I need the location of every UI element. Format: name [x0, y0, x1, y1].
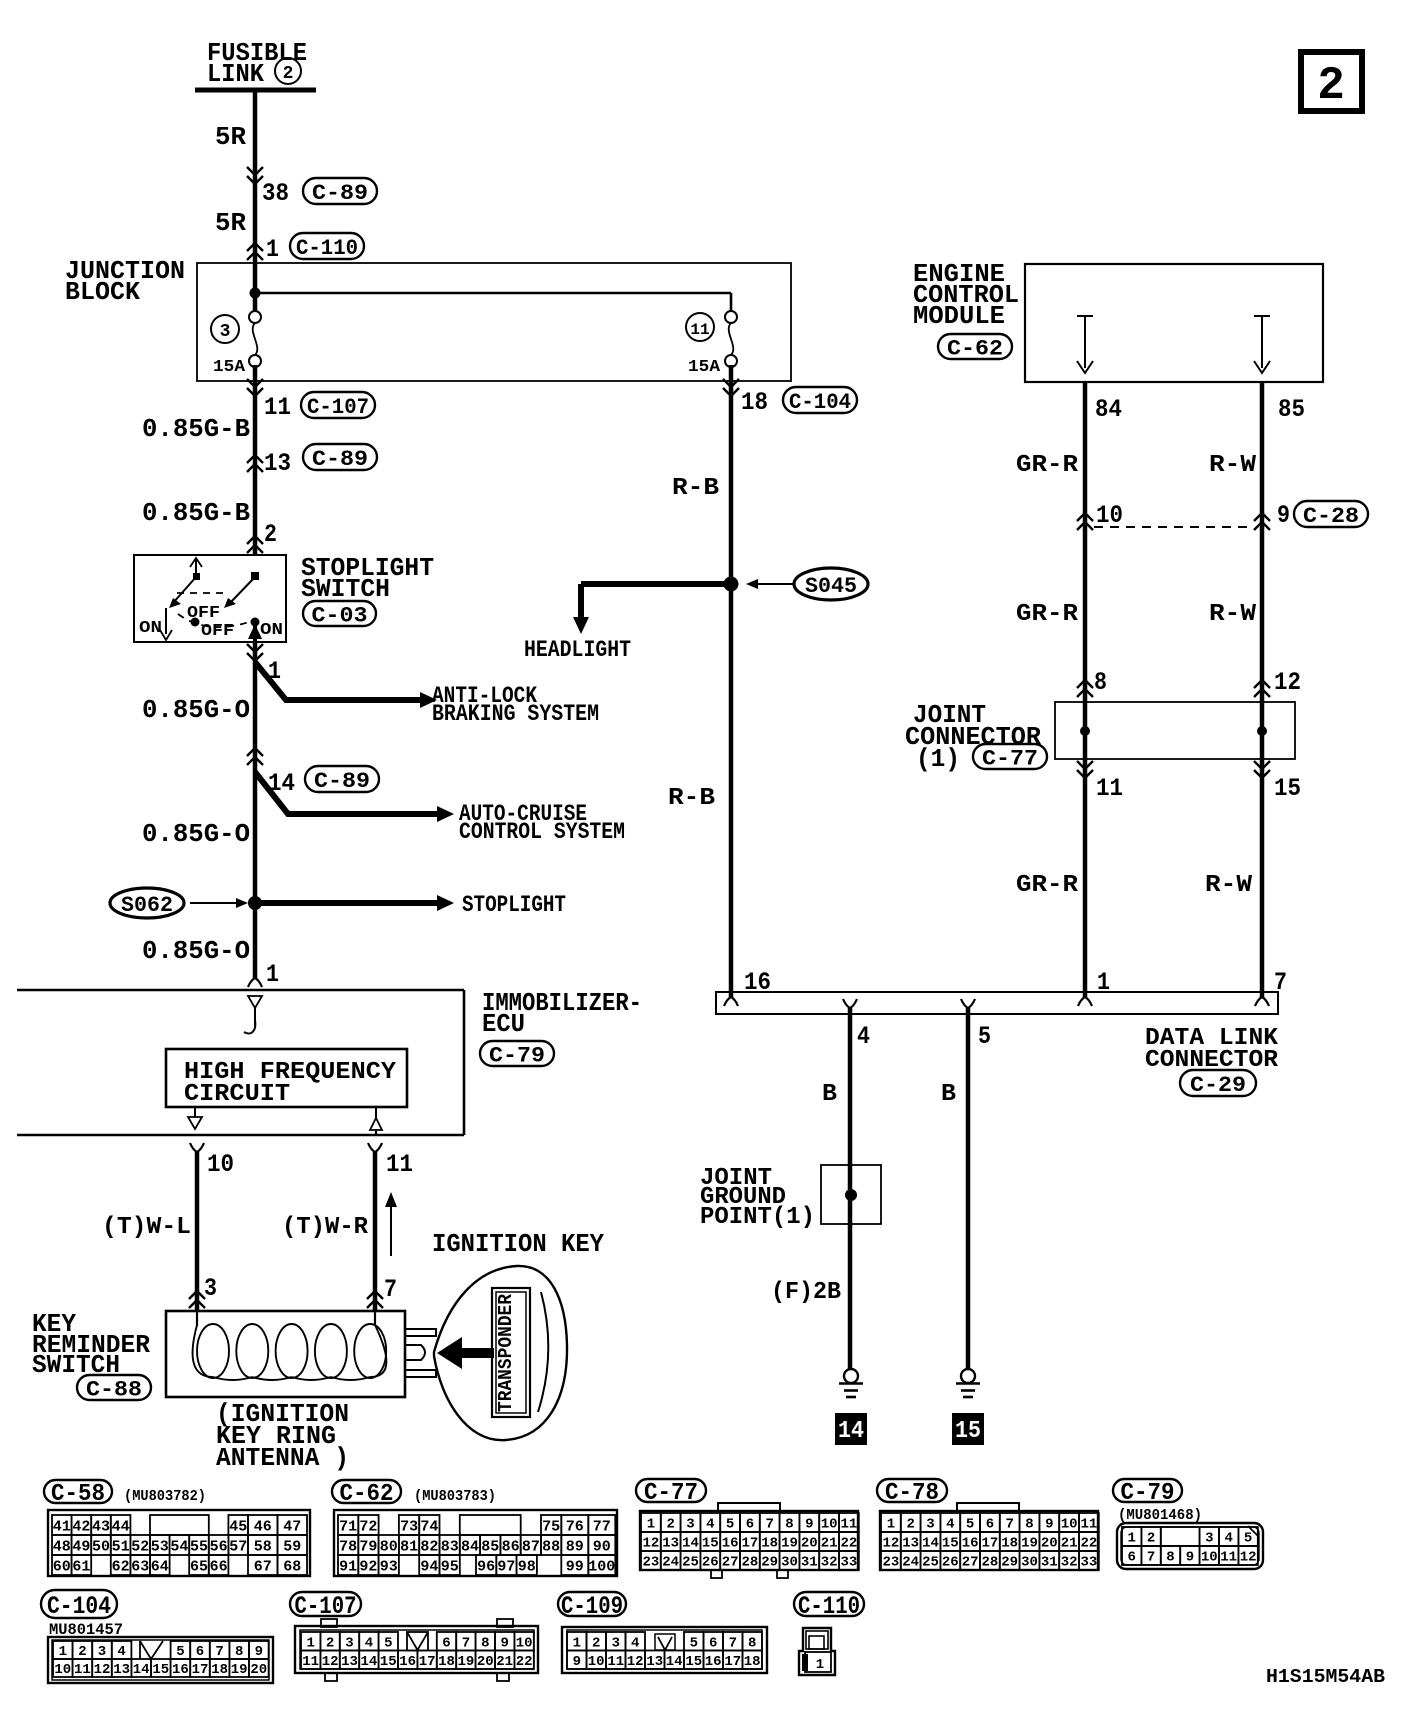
- svg-text:20: 20: [801, 1536, 818, 1552]
- svg-text:B: B: [822, 1081, 837, 1108]
- svg-text:(1): (1): [916, 744, 960, 774]
- svg-text:15: 15: [955, 1418, 981, 1445]
- svg-text:2: 2: [78, 1644, 86, 1660]
- svg-text:47: 47: [283, 1518, 301, 1535]
- svg-text:S062: S062: [121, 893, 173, 918]
- svg-text:26: 26: [702, 1555, 719, 1571]
- svg-text:6: 6: [746, 1517, 754, 1533]
- svg-text:13: 13: [113, 1662, 130, 1678]
- svg-text:6: 6: [986, 1517, 994, 1533]
- svg-text:92: 92: [359, 1558, 377, 1575]
- node S045 junction: [581, 577, 739, 592]
- label pin 1 below switch: [268, 657, 281, 686]
- DLC terminal forks top: [724, 997, 1269, 1006]
- ignition key shaft: [405, 1329, 436, 1377]
- connector label C-79: [480, 1041, 554, 1068]
- connector symbols at joint connector entry: [1077, 680, 1270, 697]
- svg-text:C-88: C-88: [86, 1377, 142, 1402]
- stoplight switch C-03 box: [134, 555, 286, 642]
- connector symbols at key reminder switch: [189, 1291, 383, 1308]
- headlight label: [524, 637, 631, 663]
- svg-text:IGNITION KEY: IGNITION KEY: [432, 1229, 604, 1259]
- svg-text:28: 28: [981, 1555, 998, 1571]
- stoplight switch right pole: [224, 572, 262, 642]
- svg-text:R-B: R-B: [668, 785, 715, 812]
- svg-text:C-89: C-89: [314, 769, 370, 794]
- svg-text:C-58: C-58: [51, 1481, 105, 1508]
- label 5R upper: [215, 122, 246, 152]
- svg-text:18: 18: [438, 1654, 455, 1670]
- connector C-109 label: [558, 1592, 626, 1621]
- label B left: [822, 1081, 837, 1108]
- key reminder switch label: [32, 1309, 150, 1380]
- connector symbol above stoplight switch: [247, 536, 263, 553]
- svg-text:9: 9: [500, 1635, 508, 1651]
- svg-text:22: 22: [516, 1654, 533, 1670]
- svg-text:8: 8: [1094, 668, 1107, 697]
- svg-text:6: 6: [442, 1635, 450, 1651]
- svg-text:18: 18: [744, 1654, 761, 1670]
- label pin 84: [1095, 395, 1122, 424]
- wire W-R pin 11: [368, 1143, 382, 1311]
- svg-text:11: 11: [1096, 774, 1123, 803]
- label pin 14 and C-89: [268, 766, 379, 798]
- svg-text:78: 78: [339, 1538, 357, 1555]
- svg-text:12: 12: [1240, 1550, 1257, 1566]
- page number box 2: [1301, 52, 1362, 112]
- svg-text:7: 7: [729, 1635, 737, 1651]
- svg-text:GR-R: GR-R: [1016, 872, 1079, 899]
- svg-text:CONTROL SYSTEM: CONTROL SYSTEM: [459, 819, 625, 845]
- svg-text:19: 19: [457, 1654, 474, 1670]
- svg-text:8: 8: [235, 1644, 243, 1660]
- label GR-R upper: [1016, 452, 1079, 479]
- svg-text:BLOCK: BLOCK: [65, 277, 140, 307]
- connector C-110 label: [794, 1592, 864, 1621]
- svg-text:51: 51: [112, 1538, 130, 1555]
- svg-text:7: 7: [462, 1635, 470, 1651]
- antenna input symbol: [244, 996, 262, 1034]
- svg-text:9: 9: [573, 1654, 581, 1670]
- immobilizer ECU label: [482, 988, 642, 1039]
- label pin 7: [384, 1275, 397, 1304]
- svg-text:STOPLIGHT: STOPLIGHT: [462, 892, 566, 918]
- svg-text:91: 91: [339, 1558, 357, 1575]
- svg-text:57: 57: [229, 1538, 247, 1555]
- svg-text:2: 2: [906, 1517, 914, 1533]
- wire 0.85G-B: [253, 365, 258, 556]
- svg-text:12: 12: [642, 1536, 659, 1552]
- svg-text:26: 26: [942, 1555, 959, 1571]
- svg-text:14: 14: [838, 1418, 864, 1445]
- svg-text:31: 31: [1041, 1555, 1058, 1571]
- svg-text:100: 100: [588, 1558, 615, 1575]
- joint ground point (1) box: [821, 1165, 881, 1224]
- ECM output arrow right: [1254, 316, 1270, 373]
- svg-text:R-W: R-W: [1205, 872, 1253, 899]
- svg-text:0.85G-O: 0.85G-O: [142, 819, 250, 849]
- svg-text:10: 10: [54, 1662, 71, 1678]
- label pin 1 at immobilizer ECU: [266, 960, 279, 989]
- label pin 3: [204, 1274, 217, 1303]
- svg-text:42: 42: [72, 1518, 90, 1535]
- svg-text:5: 5: [966, 1517, 974, 1533]
- wire W-L pin 10: [190, 1143, 204, 1311]
- svg-text:21: 21: [1061, 1536, 1078, 1552]
- connector C-104 label: [41, 1590, 117, 1621]
- svg-text:17: 17: [741, 1536, 758, 1552]
- svg-text:12: 12: [322, 1654, 339, 1670]
- auto-cruise control system label: [459, 801, 625, 845]
- label 0.85G-B lower: [142, 498, 250, 528]
- svg-text:85: 85: [1278, 395, 1305, 424]
- svg-text:3: 3: [686, 1517, 694, 1533]
- svg-text:30: 30: [781, 1555, 798, 1571]
- label R-W lower: [1205, 872, 1253, 899]
- svg-text:30: 30: [1021, 1555, 1038, 1571]
- dashed connector line C-28: [1094, 526, 1253, 528]
- svg-text:7: 7: [1147, 1550, 1155, 1566]
- svg-text:16: 16: [962, 1536, 979, 1552]
- svg-text:10: 10: [1061, 1517, 1078, 1533]
- svg-text:88: 88: [542, 1538, 560, 1555]
- label pin 16: [744, 968, 771, 997]
- label pin 11 and C-107: [264, 392, 375, 422]
- svg-text:MODULE: MODULE: [913, 301, 1005, 331]
- svg-text:43: 43: [92, 1518, 110, 1535]
- svg-text:10: 10: [588, 1654, 605, 1670]
- svg-text:BRAKING SYSTEM: BRAKING SYSTEM: [432, 701, 599, 727]
- stoplight switch ON label right: [260, 621, 283, 640]
- label pin 10 at C-28: [1096, 501, 1123, 530]
- svg-text:3: 3: [204, 1274, 217, 1303]
- svg-text:14: 14: [682, 1536, 699, 1552]
- svg-text:11: 11: [840, 1517, 857, 1533]
- svg-text:GR-R: GR-R: [1016, 601, 1079, 628]
- connector C-62 pinout: [334, 1510, 617, 1576]
- svg-text:(MU803782): (MU803782): [124, 1488, 206, 1505]
- connector C-78 label: [877, 1479, 947, 1507]
- engine control module label: [913, 259, 1019, 331]
- svg-text:CIRCUIT: CIRCUIT: [184, 1081, 290, 1108]
- svg-text:25: 25: [682, 1555, 699, 1571]
- label pin 5: [978, 1022, 991, 1051]
- svg-text:10: 10: [1096, 501, 1123, 530]
- svg-text:23: 23: [642, 1555, 659, 1571]
- svg-text:97: 97: [497, 1558, 515, 1575]
- svg-text:15: 15: [152, 1662, 169, 1678]
- connector C-58 label: [44, 1480, 112, 1508]
- label MU803783: [414, 1488, 496, 1505]
- connector symbol at junction block entry: [247, 243, 263, 260]
- svg-text:59: 59: [283, 1538, 301, 1555]
- svg-text:11: 11: [264, 393, 291, 422]
- svg-text:22: 22: [840, 1536, 857, 1552]
- svg-text:0.85G-O: 0.85G-O: [142, 936, 250, 966]
- svg-text:49: 49: [72, 1538, 90, 1555]
- svg-text:5: 5: [176, 1644, 184, 1660]
- svg-text:25: 25: [922, 1555, 939, 1571]
- svg-text:5: 5: [690, 1635, 698, 1651]
- svg-text:18: 18: [1001, 1536, 1018, 1552]
- svg-text:76: 76: [566, 1518, 584, 1535]
- svg-text:95: 95: [441, 1558, 459, 1575]
- svg-text:12: 12: [1274, 668, 1301, 697]
- svg-text:6: 6: [1127, 1550, 1135, 1566]
- label pin 15 below joint connector: [1274, 774, 1301, 803]
- svg-text:11: 11: [607, 1654, 624, 1670]
- connector C-104 pinout: [48, 1637, 273, 1683]
- label pin 1 and C-110: [266, 233, 364, 264]
- svg-text:H1S15M54AB: H1S15M54AB: [1266, 1666, 1385, 1688]
- svg-text:4: 4: [857, 1022, 870, 1051]
- svg-text:21: 21: [496, 1654, 513, 1670]
- svg-text:SWITCH: SWITCH: [301, 574, 390, 604]
- svg-text:7: 7: [384, 1275, 397, 1304]
- connector C-62 label: [332, 1480, 401, 1508]
- ground wire B right: [966, 1008, 971, 1369]
- joint ground point label: [700, 1165, 815, 1231]
- svg-text:POINT(1): POINT(1): [700, 1204, 815, 1231]
- svg-text:(MU803783): (MU803783): [414, 1488, 496, 1505]
- svg-text:9: 9: [805, 1517, 813, 1533]
- svg-text:11: 11: [386, 1150, 413, 1179]
- ECM output arrow left: [1077, 316, 1093, 373]
- svg-text:41: 41: [53, 1518, 71, 1535]
- label R-W middle: [1209, 601, 1257, 628]
- svg-text:16: 16: [705, 1654, 722, 1670]
- svg-text:3: 3: [612, 1635, 620, 1651]
- svg-text:4: 4: [631, 1635, 639, 1651]
- svg-text:6: 6: [196, 1644, 204, 1660]
- connector C-79 pinout: [1117, 1523, 1263, 1569]
- svg-text:8: 8: [785, 1517, 793, 1533]
- svg-text:R-W: R-W: [1209, 601, 1257, 628]
- label MU801457: [49, 1621, 123, 1639]
- svg-text:45: 45: [229, 1518, 247, 1535]
- ignition key label: [432, 1229, 604, 1259]
- label 0.85G-B upper: [142, 414, 250, 444]
- svg-text:C-29: C-29: [1190, 1073, 1246, 1098]
- svg-text:12: 12: [882, 1536, 899, 1552]
- svg-text:90: 90: [593, 1538, 611, 1555]
- label R-B lower: [668, 785, 715, 812]
- svg-text:2: 2: [592, 1635, 600, 1651]
- label pin 9 and C-28: [1277, 501, 1368, 530]
- svg-text:60: 60: [53, 1558, 71, 1575]
- svg-text:84: 84: [461, 1538, 479, 1555]
- svg-text:50: 50: [92, 1538, 110, 1555]
- svg-text:1: 1: [59, 1644, 67, 1660]
- svg-text:18: 18: [211, 1662, 228, 1678]
- svg-text:OFF: OFF: [187, 604, 220, 623]
- label (T)W-L: [102, 1214, 191, 1241]
- svg-text:C-89: C-89: [312, 181, 368, 206]
- ground tag 15: [952, 1413, 984, 1445]
- svg-text:67: 67: [254, 1558, 272, 1575]
- svg-text:86: 86: [502, 1538, 520, 1555]
- stoplight switch left pole: [160, 558, 202, 640]
- ground wire B left: [848, 1008, 853, 1369]
- svg-text:GR-R: GR-R: [1016, 452, 1079, 479]
- label MU803782: [124, 1488, 206, 1505]
- svg-text:46: 46: [254, 1518, 272, 1535]
- svg-text:15: 15: [685, 1654, 702, 1670]
- headlight feed arrow: [573, 584, 589, 634]
- svg-text:29: 29: [1001, 1555, 1018, 1571]
- connector C-58 pinout: [48, 1510, 310, 1576]
- transponder arrow: [437, 1337, 494, 1369]
- svg-text:82: 82: [420, 1538, 438, 1555]
- connector symbol 38 C-89: [247, 167, 263, 184]
- svg-text:9: 9: [1186, 1550, 1194, 1566]
- branch to auto-cruise control system: [255, 772, 454, 822]
- svg-text:2: 2: [1317, 60, 1345, 112]
- svg-text:C-77: C-77: [644, 1480, 698, 1507]
- connector label C-62: [938, 334, 1012, 361]
- svg-text:98: 98: [518, 1558, 536, 1575]
- svg-text:10: 10: [207, 1150, 234, 1179]
- svg-text:1: 1: [816, 1657, 824, 1673]
- svg-text:1: 1: [266, 235, 279, 264]
- label pin 12: [1274, 668, 1301, 697]
- svg-text:4: 4: [1224, 1531, 1232, 1547]
- key reminder switch coil: [193, 1311, 387, 1380]
- svg-text:99: 99: [566, 1558, 584, 1575]
- label B right: [941, 1081, 956, 1108]
- connector C-77 pinout: [640, 1503, 859, 1578]
- connector symbol below junction block right: [723, 379, 739, 396]
- svg-text:15: 15: [702, 1536, 719, 1552]
- connector C-107 pinout: [295, 1619, 538, 1681]
- svg-text:C-89: C-89: [312, 447, 368, 472]
- svg-text:11: 11: [302, 1654, 319, 1670]
- svg-text:14: 14: [360, 1654, 377, 1670]
- node S062 junction and branch to stoplight: [248, 895, 454, 911]
- svg-text:16: 16: [172, 1662, 189, 1678]
- node: junction block bus: [250, 264, 732, 312]
- label 0.85G-O third: [142, 936, 250, 966]
- svg-text:56: 56: [210, 1538, 228, 1555]
- svg-text:C-62: C-62: [340, 1481, 394, 1508]
- connector label C-77 reference: [973, 744, 1047, 771]
- ground 15: [956, 1369, 980, 1397]
- stoplight switch ON label left: [139, 619, 162, 638]
- svg-text:15: 15: [380, 1654, 397, 1670]
- HF circuit pin triangles: [188, 1107, 382, 1135]
- svg-text:8: 8: [1166, 1550, 1174, 1566]
- svg-text:83: 83: [441, 1538, 459, 1555]
- svg-text:85: 85: [481, 1538, 499, 1555]
- svg-text:73: 73: [400, 1518, 418, 1535]
- svg-text:81: 81: [400, 1538, 418, 1555]
- svg-text:1: 1: [1127, 1531, 1135, 1547]
- fusible link bus bar: [195, 88, 316, 93]
- svg-text:2: 2: [283, 64, 294, 84]
- connector symbol below stoplight switch: [247, 644, 263, 661]
- connector symbol 13 C-89: [247, 455, 263, 472]
- svg-text:72: 72: [359, 1518, 377, 1535]
- svg-text:8: 8: [748, 1635, 756, 1651]
- label R-B upper: [672, 475, 719, 502]
- anti-lock braking system label: [432, 683, 599, 727]
- svg-text:44: 44: [112, 1518, 130, 1535]
- svg-text:1: 1: [573, 1635, 581, 1651]
- svg-text:13: 13: [902, 1536, 919, 1552]
- svg-text:1: 1: [647, 1517, 655, 1533]
- svg-text:93: 93: [380, 1558, 398, 1575]
- svg-text:3: 3: [98, 1644, 106, 1660]
- svg-text:B: B: [941, 1081, 956, 1108]
- svg-text:ON: ON: [260, 621, 283, 640]
- label pin 13 and C-89: [264, 444, 377, 478]
- svg-text:C-110: C-110: [798, 1592, 860, 1621]
- ground tag 14: [835, 1413, 867, 1445]
- label pin 2: [264, 520, 277, 549]
- svg-text:63: 63: [131, 1558, 149, 1575]
- label pin 11: [386, 1150, 413, 1179]
- label pin 85: [1278, 395, 1305, 424]
- svg-text:28: 28: [741, 1555, 758, 1571]
- svg-text:9: 9: [1045, 1517, 1053, 1533]
- label R-W upper: [1209, 452, 1257, 479]
- svg-text:C-104: C-104: [789, 390, 851, 415]
- svg-text:OFF: OFF: [201, 622, 234, 641]
- svg-text:7: 7: [1005, 1517, 1013, 1533]
- svg-text:2: 2: [264, 520, 277, 549]
- svg-text:94: 94: [420, 1558, 438, 1575]
- svg-text:4: 4: [365, 1635, 373, 1651]
- svg-text:C-109: C-109: [561, 1592, 623, 1621]
- wire GR-R to data link connector: [1083, 762, 1088, 997]
- junction block: [197, 263, 791, 381]
- wire R-W to data link connector: [1260, 762, 1265, 997]
- svg-text:68: 68: [283, 1558, 301, 1575]
- high frequency circuit box: [166, 1049, 407, 1107]
- svg-text:13: 13: [662, 1536, 679, 1552]
- connector C-77 label: [636, 1479, 706, 1507]
- svg-text:8: 8: [1025, 1517, 1033, 1533]
- svg-text:54: 54: [170, 1538, 188, 1555]
- svg-text:(MU801468): (MU801468): [1118, 1507, 1202, 1524]
- svg-text:11: 11: [1080, 1517, 1097, 1533]
- svg-text:TRANSPONDER: TRANSPONDER: [495, 1293, 517, 1412]
- transponder box: [492, 1288, 530, 1417]
- svg-text:38: 38: [262, 179, 289, 208]
- svg-text:64: 64: [151, 1558, 169, 1575]
- svg-text:74: 74: [420, 1518, 438, 1535]
- label pin 38 and C-89: [262, 178, 377, 208]
- svg-text:19: 19: [781, 1536, 798, 1552]
- svg-text:5R: 5R: [215, 122, 246, 152]
- svg-text:ON: ON: [139, 619, 162, 638]
- label pin 4: [857, 1022, 870, 1051]
- connector label C-88: [77, 1375, 151, 1402]
- svg-text:33: 33: [1080, 1555, 1097, 1571]
- svg-text:16: 16: [722, 1536, 739, 1552]
- fuse 11 (15A): [686, 311, 737, 377]
- joint connector label: [905, 700, 1041, 774]
- label (F)2B: [771, 1279, 841, 1306]
- connector symbols below joint connector: [1077, 761, 1270, 778]
- svg-text:13: 13: [264, 449, 291, 478]
- splice S062: [110, 888, 248, 918]
- stoplight label: [462, 892, 566, 918]
- key reminder switch box: [166, 1311, 405, 1397]
- svg-text:15A: 15A: [213, 358, 246, 377]
- svg-text:S045: S045: [805, 574, 857, 599]
- svg-text:20: 20: [250, 1662, 267, 1678]
